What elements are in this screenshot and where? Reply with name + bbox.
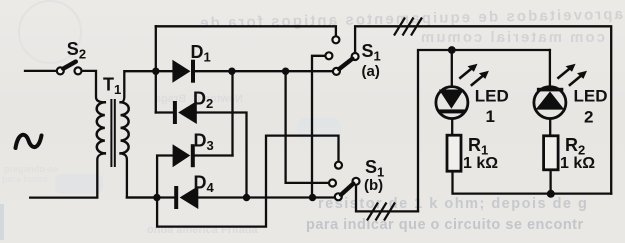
wire D1-D3 cathode link	[231, 71, 233, 155]
junction node S1a-left link bottom	[309, 194, 316, 201]
wire secondary top	[122, 71, 156, 102]
wire S1b common drop	[356, 185, 418, 212]
svg-text:resistor de 1 k ohm; depois de: resistor de 1 k ohm; depois de g	[318, 196, 588, 212]
ghost word middle mirrored	[154, 93, 243, 105]
svg-text:com material comum: com material comum	[419, 29, 605, 46]
svg-text:pregando-se: pregando-se	[4, 164, 58, 174]
wire R2 bottom	[549, 170, 551, 194]
wire bridge plus to S1b left contact	[286, 71, 329, 183]
faint blue blob mid	[297, 118, 341, 140]
svg-text:(b): (b)	[364, 177, 383, 194]
wire LED loop left side and inner top rail	[418, 50, 550, 211]
svg-text:LED: LED	[475, 87, 509, 106]
wire D3 cathode	[194, 154, 233, 156]
wire LED2 branch	[549, 50, 552, 136]
junction node AC-B bottom	[153, 194, 160, 201]
transformer core	[111, 100, 114, 166]
resistor R2	[544, 136, 559, 170]
wire D3 anode	[157, 156, 173, 198]
top rail node A	[156, 26, 336, 36]
wire D2 cathode	[156, 111, 173, 113]
svg-text:(a): (a)	[362, 63, 380, 80]
wire bottom AC-B row	[127, 196, 174, 198]
wire LED1 branch	[451, 50, 454, 135]
faint blue blob left-low	[55, 174, 103, 194]
wire AC to S2	[25, 70, 57, 72]
wire S2 to transformer primary top	[82, 71, 104, 102]
LED2 arrows	[557, 64, 587, 86]
wire D1 cathode to S1a bottom contact	[195, 70, 333, 72]
resistor R1	[447, 135, 461, 171]
junction node R2 bottom	[547, 190, 555, 198]
LED1	[436, 87, 468, 119]
diode D3	[173, 144, 195, 167]
wire S1a left contact to bottom rail	[312, 56, 325, 198]
wire S1a common riser and top right rail	[355, 26, 611, 193]
wire lower loop to S1b top contact	[157, 136, 338, 227]
wire R1 to bottom rail	[453, 171, 612, 193]
svg-text:para todos: para todos	[2, 174, 48, 184]
wire primary bottom + bottom-left rail	[30, 153, 105, 197]
svg-text:1 kΩ: 1 kΩ	[463, 155, 498, 172]
wire D1 anode	[156, 70, 173, 72]
svg-text:1: 1	[486, 107, 495, 126]
diode D2	[173, 101, 197, 124]
break marks S1b rail	[367, 203, 395, 221]
junction node D1 right	[228, 68, 235, 75]
switch S2	[57, 62, 82, 75]
ghost bleed-through text second line	[419, 29, 605, 46]
diode D4	[174, 186, 198, 209]
junction node D1 left	[152, 68, 159, 75]
svg-text:1 kΩ: 1 kΩ	[560, 155, 595, 172]
svg-text:LED: LED	[574, 87, 608, 106]
break marks top rail	[394, 18, 422, 36]
wire D2 anode drop	[197, 113, 247, 198]
transformer T1 primary winding	[97, 102, 105, 153]
left bridge rail	[155, 26, 157, 112]
AC source symbol	[16, 135, 42, 148]
transformer T1 secondary winding	[121, 102, 129, 153]
faint blue blob left edge	[0, 204, 4, 240]
wire D4 anode row to S1b bottom contact	[198, 196, 335, 198]
svg-text:2: 2	[584, 107, 593, 126]
wire secondary bottom	[121, 153, 157, 197]
svg-text:para indicar que o circuito se: para indicar que o circuito se encontr	[306, 217, 584, 233]
LED2	[534, 87, 566, 119]
faint rounded frame arc top-left	[19, 1, 81, 63]
ghost bleed-through text top line	[198, 6, 623, 32]
switch S1b	[329, 162, 360, 201]
junction node D2 anode bottom	[243, 194, 250, 201]
junction node bridge plus	[282, 68, 289, 75]
LED1 arrows	[459, 64, 489, 86]
switch S1a	[325, 36, 358, 75]
junction node LED1 top	[448, 46, 456, 54]
diode D1	[172, 60, 195, 83]
